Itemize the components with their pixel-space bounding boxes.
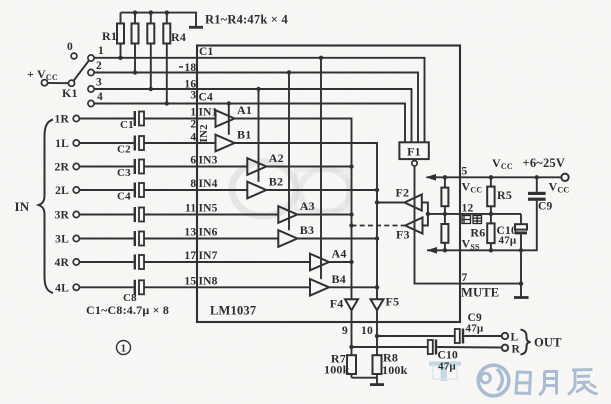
junction R3 row3: [149, 87, 153, 91]
junction R1 row1: [118, 56, 122, 60]
watermark character YUE (moon): [539, 372, 557, 396]
resistor R8: [373, 355, 382, 378]
junction lower resistor Vss: [443, 248, 447, 252]
label pin 11 IN5: [185, 203, 218, 215]
label pin 8 IN4: [190, 178, 217, 190]
scan grain overlay: [0, 0, 1, 1]
resistor R4: [163, 13, 170, 104]
junction V4 on C1 row: [319, 56, 323, 60]
brace IN inputs: [39, 120, 54, 294]
resistor R7: [347, 355, 356, 378]
watermark logo circle: [478, 365, 509, 396]
junction R5 top: [489, 175, 493, 179]
F1 output bubble: [412, 161, 417, 166]
wire 2L to coupling cap: [79, 189, 133, 191]
terminal L: [502, 332, 519, 344]
junction A4 on V5: [349, 260, 353, 264]
junction pin9 line: [349, 345, 353, 349]
junction B4 on V6: [375, 285, 379, 289]
buffer A1: [216, 110, 235, 127]
ground (resistor rail): [189, 26, 203, 29]
wire A3 output: [297, 214, 351, 216]
terminal +Vcc: [27, 67, 58, 86]
junction C9 Vcc rail: [535, 175, 539, 179]
wire cap to buffer input: [144, 166, 247, 168]
wire C10 bias to Vss rail and down to mute row: [520, 234, 522, 283]
resistor R3: [147, 13, 154, 89]
wire pin12 row down to C10 bias: [520, 214, 522, 224]
wire F3 input from V5 (dashed): [352, 225, 406, 227]
internal resistor upper: [441, 177, 448, 214]
capacitor C8 (input coupling): [134, 280, 144, 295]
switch K1 common contact: [68, 80, 74, 86]
wire 3R to coupling cap: [79, 214, 133, 216]
wire 2R to coupling cap: [79, 166, 133, 168]
wire B4 output: [329, 286, 377, 288]
label pin 13 IN6: [184, 227, 217, 239]
arrow Vss rail: [427, 247, 438, 254]
wire B3 output: [297, 238, 377, 240]
wire B1 output to bus V6: [235, 143, 378, 299]
internal resistor lower: [441, 214, 448, 250]
label pin 1 IN1: [190, 107, 217, 119]
buffer A4: [310, 254, 329, 271]
wire pin 9 to C10: [352, 346, 428, 348]
input terminal 1L: [55, 138, 79, 150]
wire F2 input from V6: [377, 202, 405, 204]
junction A3 on V5: [349, 212, 353, 216]
faint grey watermark bar: [296, 170, 348, 210]
capacitor C4 (input coupling): [134, 183, 144, 198]
wire R7 R8 bottom rail: [352, 377, 378, 379]
wire B2 output: [266, 189, 377, 191]
wire Vcc terminal to K1 common: [48, 82, 69, 84]
junction R5/R6 pin12: [489, 212, 493, 216]
contact 2: [88, 69, 94, 75]
wire 4R to coupling cap: [79, 261, 133, 263]
wire A2 output: [266, 166, 351, 168]
junction V2 on pin16 row: [256, 87, 260, 91]
junction V3 on pin18 row: [287, 70, 291, 74]
junction F3 line on V5: [349, 223, 353, 227]
terminal +6~25V: [561, 174, 568, 181]
wire cap to buffer input: [144, 189, 247, 191]
wire cap to buffer input: [144, 214, 278, 216]
terminal R: [502, 344, 521, 356]
wire control row 3 (pin 16) from K1 to F1: [94, 89, 411, 142]
buffer B3: [278, 230, 297, 247]
wire 1R to coupling cap: [79, 118, 133, 120]
buffer F4: [345, 299, 358, 310]
wire C9 to L terminal: [464, 335, 502, 337]
junction R6 bottom: [489, 248, 493, 252]
ground (MUTE): [514, 284, 529, 298]
contact 3: [88, 86, 94, 92]
junction R4 row4: [165, 101, 169, 105]
wire 1L to coupling cap: [79, 142, 133, 144]
stray mark: [179, 66, 183, 68]
wire A4 output: [329, 261, 352, 263]
faint grey watermark circle left: [232, 162, 296, 216]
capacitor C10 (output coupling): [428, 340, 437, 355]
buffer F3: [405, 218, 422, 234]
junction F2 line on V6: [375, 200, 379, 204]
buffer A2: [247, 158, 266, 175]
input terminal 3L: [55, 234, 79, 246]
wire select line V3 from pin18 row: [288, 73, 290, 231]
input terminal 2R: [55, 162, 80, 174]
wire F1 to MUTE pin 7: [415, 166, 522, 284]
input terminal 1R: [55, 114, 80, 126]
wire 3L to coupling cap: [79, 238, 133, 240]
junction V1 on C4 row: [227, 101, 231, 105]
IC box LM1037: [197, 46, 460, 323]
wire cap to buffer input: [144, 286, 310, 288]
junction MUTE ground: [519, 281, 523, 285]
contact 4: [88, 100, 94, 106]
resistor R1: [117, 13, 124, 58]
junction B3 on V6: [375, 236, 379, 240]
capacitor C3 (input coupling): [134, 159, 144, 174]
ground (R7/R8): [370, 378, 384, 385]
wire F2/F3 common bar to pin 12: [422, 203, 521, 226]
capacitor C9 (supply): [528, 177, 546, 201]
wire F4 to pin 9 and R7: [351, 310, 353, 355]
label pin 15 IN8: [184, 276, 217, 288]
capacitor C5/C6/C7 (input coupling): [134, 231, 144, 246]
label pin 6 IN3: [190, 155, 217, 167]
junction top rail R3: [149, 10, 153, 14]
resistor R5: [487, 177, 494, 214]
watermark character CHEN: [568, 370, 598, 395]
buffer F5: [371, 299, 384, 310]
wire control row 4 (C4) from K1 to F1: [94, 104, 405, 143]
watermark blue T: [429, 362, 461, 382]
wire Vcc rail (pin 5): [427, 176, 562, 178]
wire pin 10 to C9: [377, 335, 455, 337]
faint grey watermark circle right: [300, 169, 350, 213]
wire control row 2 (pin 18) from K1 to F1: [94, 73, 418, 143]
arrow Vcc rail: [426, 174, 437, 181]
wire select line V4 from C1 row: [320, 58, 322, 279]
figure number circled 1: [117, 341, 131, 355]
contact 0: [71, 53, 77, 59]
capacitor C10 (bias decoupling): [515, 224, 527, 234]
junction A2 on V5: [349, 164, 353, 168]
wire C10 to R terminal: [437, 346, 502, 349]
wire resistor top rail: [121, 13, 197, 27]
capacitor C5/C6/C7 (input coupling): [134, 207, 144, 222]
capacitor C1 (input coupling): [134, 111, 144, 126]
contact 1: [88, 55, 94, 61]
junction pin10 line: [375, 334, 379, 338]
wire select line V1 from C4 row: [228, 104, 230, 135]
input terminal 4L: [55, 283, 79, 295]
capacitor C9 (output coupling): [455, 329, 464, 344]
junction top rail R2: [133, 10, 137, 14]
junction upper resistor pin12: [443, 212, 447, 216]
brace OUT: [521, 330, 531, 355]
watermark character RI (sun): [516, 372, 531, 394]
input terminal 3R: [55, 210, 80, 222]
junction top rail R4: [165, 10, 169, 14]
wire cap to buffer input: [144, 238, 278, 240]
wire A1 output to bus V5: [235, 119, 352, 300]
logic block F1: [399, 142, 428, 159]
switch K1 arm: [74, 61, 89, 81]
wire cap to buffer input: [144, 261, 310, 263]
wire select line V2 from pin16 row: [258, 89, 260, 182]
input terminal 4R: [55, 257, 80, 269]
label bias (Chinese): [462, 216, 482, 224]
capacitor C2 (input coupling): [134, 136, 144, 151]
wire cap to buffer input: [144, 142, 216, 144]
capacitor C5/C6/C7 (input coupling): [134, 255, 144, 270]
input terminal 2L: [55, 185, 79, 197]
junction B2 on V6: [375, 188, 379, 192]
resistor R6: [487, 214, 494, 250]
label pin 17 IN7: [184, 250, 217, 262]
buffer B2: [247, 182, 266, 199]
junction C10 Vss rail: [519, 248, 523, 252]
buffer A3: [278, 206, 297, 223]
buffer F2: [405, 195, 422, 211]
buffer B1: [216, 135, 235, 152]
junction upper resistor Vcc: [443, 175, 447, 179]
junction R2 row2: [133, 70, 137, 74]
wire cap to buffer input: [144, 118, 216, 120]
junction bar pin12: [426, 212, 430, 216]
wire F5 to pin 10 and R8: [376, 310, 378, 355]
buffer B4: [310, 279, 329, 296]
wire Vss rail: [427, 201, 537, 251]
resistor R2: [132, 13, 139, 73]
wire 4L to coupling cap: [79, 286, 133, 288]
wire control row 1 (C1) from K1 to F1: [94, 58, 424, 143]
